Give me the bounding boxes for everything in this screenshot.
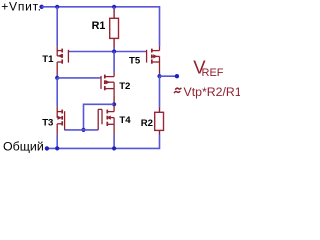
- wire R1 bottom lead maroon: [113, 38, 115, 47]
- wire T2 source to mirror node: [113, 102, 115, 105]
- wire T2 gate bus from left node: [57, 77, 100, 79]
- node junction mirror link / T3-T4 gate wire: [81, 128, 85, 132]
- transistor T2 (PMOS, terminals middle column, gate left): [100, 73, 114, 96]
- wire T4 source to ground rail: [113, 135, 115, 148]
- node junction top rail / R1 top: [112, 5, 116, 9]
- node junction output Vref: [157, 74, 161, 78]
- wire output node down to R2: [159, 76, 161, 107]
- wire gate bus T3 to T4 riser: [64, 129, 98, 131]
- wire gate bus T1 to T5: [69, 51, 145, 53]
- label approx sign: [175, 88, 181, 90]
- svg-text:+Vпит.: +Vпит.: [1, 0, 42, 14]
- svg-text:Vtp*R2/R1: Vtp*R2/R1: [184, 85, 241, 99]
- svg-text:R2: R2: [141, 118, 153, 129]
- node junction T2 source / T4 drain / mirror link: [112, 102, 116, 106]
- node junction gate bus / R1 bottom / T2 drain: [112, 49, 116, 53]
- wire T1 source down to left node: [56, 75, 58, 78]
- wire left node down to T3 drain: [56, 78, 58, 106]
- wire output stub to terminal: [160, 75, 177, 77]
- svg-text:T3: T3: [42, 117, 53, 128]
- transistor T3 (NMOS, terminals left column, gate right): [57, 106, 64, 135]
- wire R1 top lead blue: [113, 7, 115, 10]
- resistor R2: [155, 112, 164, 130]
- node junction T1 source / T3 drain / T2 gate: [55, 76, 59, 80]
- svg-text:Общий: Общий: [3, 140, 44, 154]
- wire T2 drain vertical from junction: [113, 52, 115, 73]
- wire R2 bottom lead maroon: [159, 130, 161, 134]
- svg-text:R1: R1: [92, 20, 106, 32]
- transistor T1 (PMOS, terminals left column, gate right): [57, 46, 69, 74]
- wire top supply rail: [42, 7, 160, 46]
- svg-text:T1: T1: [42, 54, 54, 65]
- transistor T5 (PMOS, terminals right column, gate left): [145, 46, 159, 73]
- wire mirror link left and down: [84, 104, 115, 130]
- wire R1 top lead maroon: [113, 10, 115, 19]
- node junction ground rail / T3 source: [55, 146, 59, 150]
- node junction top rail / T1 drain: [55, 5, 59, 9]
- svg-text:T5: T5: [129, 56, 141, 67]
- wire T5 source down to output node: [159, 74, 161, 77]
- node junction ground rail / T4 source: [112, 146, 116, 150]
- wire R2 top lead maroon: [159, 108, 161, 113]
- resistor R1: [110, 18, 119, 38]
- transistor T4 (NMOS, terminals middle column, gate left): [98, 104, 114, 135]
- wire T2 source maroon lead down: [113, 95, 115, 101]
- wire T1 drain from top rail: [56, 7, 58, 46]
- node +Vpit terminal dot: [39, 5, 43, 9]
- node Vref terminal dot: [175, 74, 179, 78]
- wire T3 source to ground rail: [56, 135, 58, 149]
- node ground terminal dot: [45, 146, 49, 150]
- svg-text:T4: T4: [119, 115, 131, 126]
- wire R2 bottom to ground rail corner: [47, 135, 160, 149]
- svg-text:REF: REF: [202, 67, 224, 79]
- svg-text:T2: T2: [119, 81, 130, 92]
- wire R1 bottom to gate-bus junction: [113, 48, 115, 52]
